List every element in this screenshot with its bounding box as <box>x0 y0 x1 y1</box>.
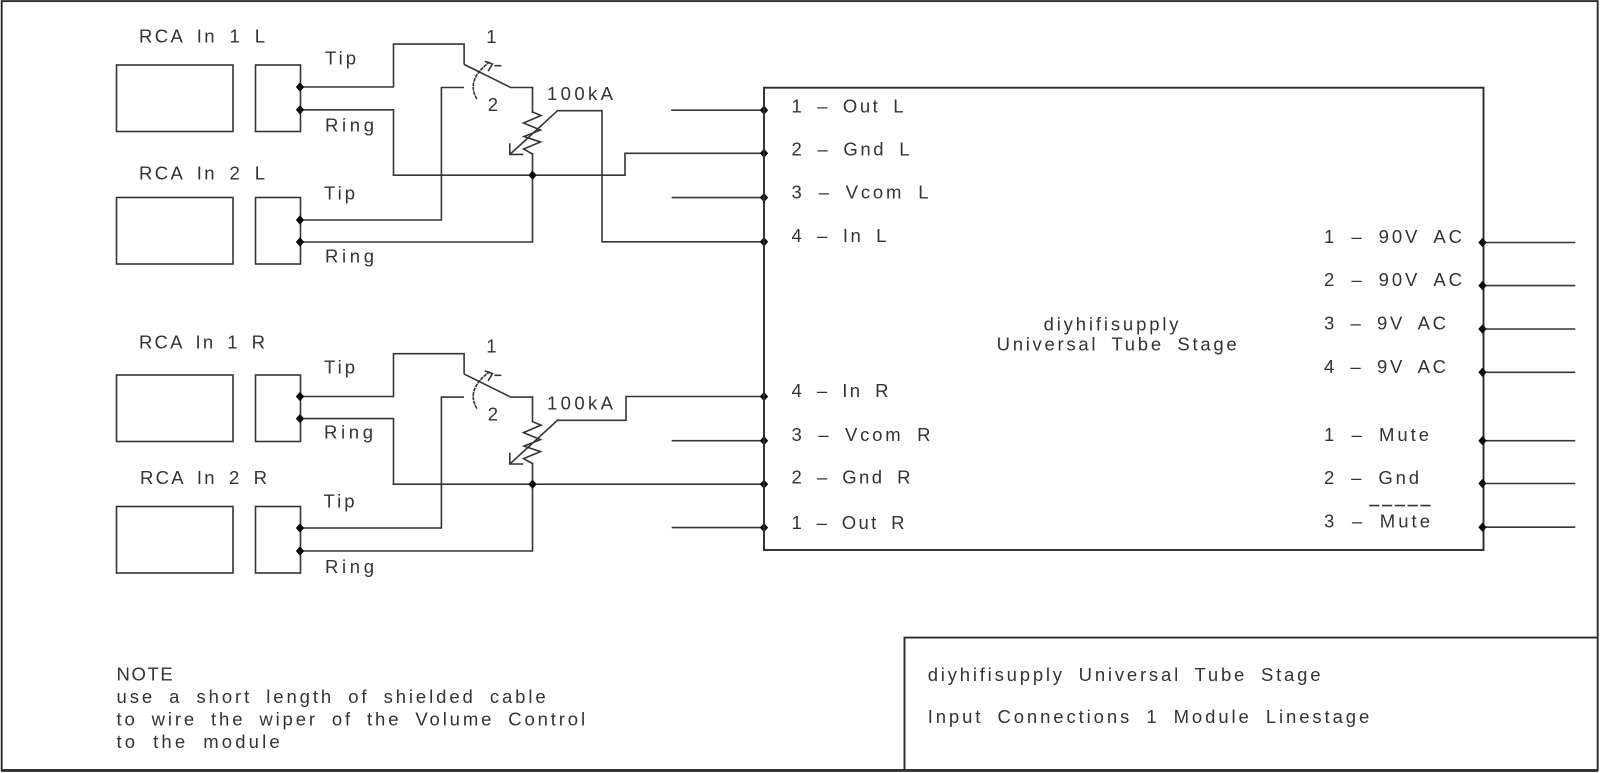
svg-text:Tip: Tip <box>324 183 358 204</box>
pin junction U1 right 1 90V AC <box>1478 238 1486 247</box>
junction: pot VR-R bottom on ground bus R <box>528 480 536 489</box>
junction: RCA2L tip <box>296 215 304 224</box>
pin junction U1 right 3 /Mute <box>1478 523 1486 532</box>
wire: module right pin 4 9V AC stub <box>1484 371 1575 373</box>
pin junction U1 right 2 Gnd <box>1478 479 1486 488</box>
svg-text:1 – 90V AC: 1 – 90V AC <box>1324 226 1465 247</box>
wire: RCA1R ring to ground bus R <box>300 419 394 485</box>
svg-text:diyhifisupply: diyhifisupply <box>1044 314 1182 335</box>
svg-text:Universal Tube Stage: Universal Tube Stage <box>997 334 1240 355</box>
svg-text:1 – Mute: 1 – Mute <box>1324 424 1432 445</box>
svg-text:RCA In 2 R: RCA In 2 R <box>140 467 269 488</box>
wire: pot VR-R bottom to ground bus <box>532 464 534 485</box>
svg-text:2 – Gnd: 2 – Gnd <box>1324 467 1422 488</box>
wire: module pin 3 Vcom L stub <box>673 197 765 199</box>
RCA plug/connector: RCA In 2 R <box>256 507 301 574</box>
switch SW-L rotation arc arrow <box>473 63 489 99</box>
svg-text:diyhifisupply Universal Tube S: diyhifisupply Universal Tube Stage <box>928 664 1324 685</box>
pin junction U1 right 3 9V AC <box>1478 324 1486 333</box>
svg-text:3 – Vcom L: 3 – Vcom L <box>792 182 932 203</box>
svg-text:RCA In 1 L: RCA In 1 L <box>139 26 267 47</box>
svg-text:4 – 9V AC: 4 – 9V AC <box>1324 356 1449 377</box>
svg-text:3 – 9V AC: 3 – 9V AC <box>1324 313 1449 334</box>
wire: ground bus L to module pin 2 Gnd L <box>394 153 765 175</box>
svg-text:to wire the wiper of the Volum: to wire the wiper of the Volume Control <box>117 708 588 729</box>
wire: pot VR-R wiper to module pin 4 In R <box>558 397 765 421</box>
pin junction U1 right 2 90V AC <box>1478 281 1486 290</box>
svg-text:4 – In R: 4 – In R <box>792 380 891 401</box>
svg-text:NOTE: NOTE <box>117 663 175 684</box>
svg-text:1 – Out R: 1 – Out R <box>792 512 907 533</box>
wire: RCA1L ring to ground bus L <box>300 110 394 175</box>
svg-text:Tip: Tip <box>324 357 358 378</box>
wire: module right pin 2 Gnd stub <box>1484 483 1575 485</box>
wire: ground bus R to module pin 2 Gnd R <box>394 483 765 485</box>
wire: RCA2R ring to ground bus R <box>300 484 533 551</box>
pin junction U1.2 Gnd L <box>760 149 768 158</box>
svg-text:Ring: Ring <box>325 556 378 577</box>
pin junction U1 right 4 9V AC <box>1478 368 1486 377</box>
wire: pot VR-L bottom to ground bus <box>532 154 534 175</box>
pin junction U1.2 Gnd R <box>760 480 768 489</box>
svg-text:1 – Out L: 1 – Out L <box>792 95 907 116</box>
RCA jack body: RCA In 1 L <box>117 65 234 132</box>
svg-text:Ring: Ring <box>325 115 378 136</box>
svg-text:2 – 90V AC: 2 – 90V AC <box>1324 269 1465 290</box>
RCA jack body: RCA In 2 R <box>117 507 234 574</box>
junction: RCA1L tip <box>296 82 304 91</box>
RCA plug/connector: RCA In 1 L <box>256 65 301 132</box>
junction: RCA2R tip <box>296 523 304 532</box>
pin junction U1.3 Vcom R <box>760 436 768 445</box>
svg-text:Tip: Tip <box>324 490 358 511</box>
RCA jack body: RCA In 1 R <box>117 375 234 442</box>
wire: module pin 1 Out L stub <box>672 109 764 111</box>
junction: RCA1R tip <box>296 392 304 401</box>
pin junction U1.1 Out L <box>760 106 768 115</box>
wire: RCA2R tip to switch SW-R throw 2 <box>300 397 463 528</box>
svg-text:2 – Gnd R: 2 – Gnd R <box>792 467 913 488</box>
overline (negation bar) over Mute label <box>1370 505 1431 507</box>
svg-text:Tip: Tip <box>325 48 359 69</box>
junction: RCA2R ring <box>296 546 304 555</box>
wire: module right pin 1 90V AC stub <box>1484 242 1575 244</box>
module U1: diyhifisupply Universal Tube Stage <box>764 88 1484 550</box>
svg-text:2: 2 <box>488 94 501 115</box>
svg-text:3 – Mute: 3 – Mute <box>1324 511 1433 532</box>
wire: pot VR-L wiper to module pin 4 In L <box>558 111 765 242</box>
wire: module pin 1 Out R stub <box>673 527 765 529</box>
pin junction U1.3 Vcom L <box>760 193 768 202</box>
switch SW-L arm (pos 1) <box>465 65 533 88</box>
svg-text:RCA In 2 L: RCA In 2 L <box>139 163 267 184</box>
junction: RCA1L ring <box>296 105 304 114</box>
wire: switch common to pot VR-R top <box>532 397 534 422</box>
wire: module right pin 3 /Mute stub <box>1484 526 1575 528</box>
switch SW-R rotation arc arrow <box>473 372 489 408</box>
wire: module right pin 2 90V AC stub <box>1484 285 1575 287</box>
pin junction U1.1 Out R <box>760 523 768 532</box>
potentiometer VR-L 100kA resistor zigzag <box>524 112 542 154</box>
wire: RCA1R tip to switch SW-R throw 1 <box>300 354 464 397</box>
wire: module pin 3 Vcom R stub <box>673 440 765 442</box>
svg-text:RCA In 1 R: RCA In 1 R <box>139 332 267 353</box>
svg-text:2 – Gnd L: 2 – Gnd L <box>792 138 913 159</box>
svg-text:Ring: Ring <box>325 246 378 267</box>
junction: RCA1R ring <box>296 414 304 423</box>
switch SW-R arm (pos 1) <box>465 374 533 397</box>
svg-text:Input Connections 1 Module Lin: Input Connections 1 Module Linestage <box>928 706 1372 727</box>
RCA plug/connector: RCA In 1 R <box>256 375 301 442</box>
wire: module right pin 1 Mute stub <box>1484 440 1575 442</box>
potentiometer VR-R 100kA resistor zigzag <box>524 422 542 464</box>
wire: RCA2L ring to ground bus L <box>300 175 533 242</box>
wire: switch common to pot VR-L top <box>532 88 534 113</box>
pin junction U1.4 In L <box>760 237 768 246</box>
svg-text:to the module: to the module <box>117 731 283 752</box>
wire: RCA2L tip to switch SW-L throw 2 <box>300 88 463 221</box>
RCA jack body: RCA In 2 L <box>117 198 234 265</box>
svg-text:1: 1 <box>486 26 499 47</box>
junction: pot VR-L bottom on ground bus L <box>528 171 536 180</box>
RCA plug/connector: RCA In 2 L <box>256 198 301 265</box>
svg-text:4 – In L: 4 – In L <box>792 225 889 246</box>
svg-text:3 – Vcom R: 3 – Vcom R <box>792 424 934 445</box>
svg-text:use a short length of shielded: use a short length of shielded cable <box>117 686 549 707</box>
pin junction U1.4 In R <box>760 392 768 401</box>
svg-text:100kA: 100kA <box>547 392 616 413</box>
wire: RCA1L tip to switch SW-L throw 1 <box>300 44 464 87</box>
svg-text:100kA: 100kA <box>547 83 616 104</box>
pot VR-L wiper arrow <box>511 111 557 154</box>
svg-text:2: 2 <box>488 404 501 425</box>
svg-text:Ring: Ring <box>324 422 377 443</box>
junction: RCA2L ring <box>296 237 304 246</box>
pot VR-R wiper arrow <box>511 420 557 463</box>
svg-text:1: 1 <box>486 336 499 357</box>
pin junction U1 right 1 Mute <box>1478 436 1486 445</box>
wire: module right pin 3 9V AC stub <box>1484 328 1575 330</box>
title block box <box>905 638 1598 770</box>
